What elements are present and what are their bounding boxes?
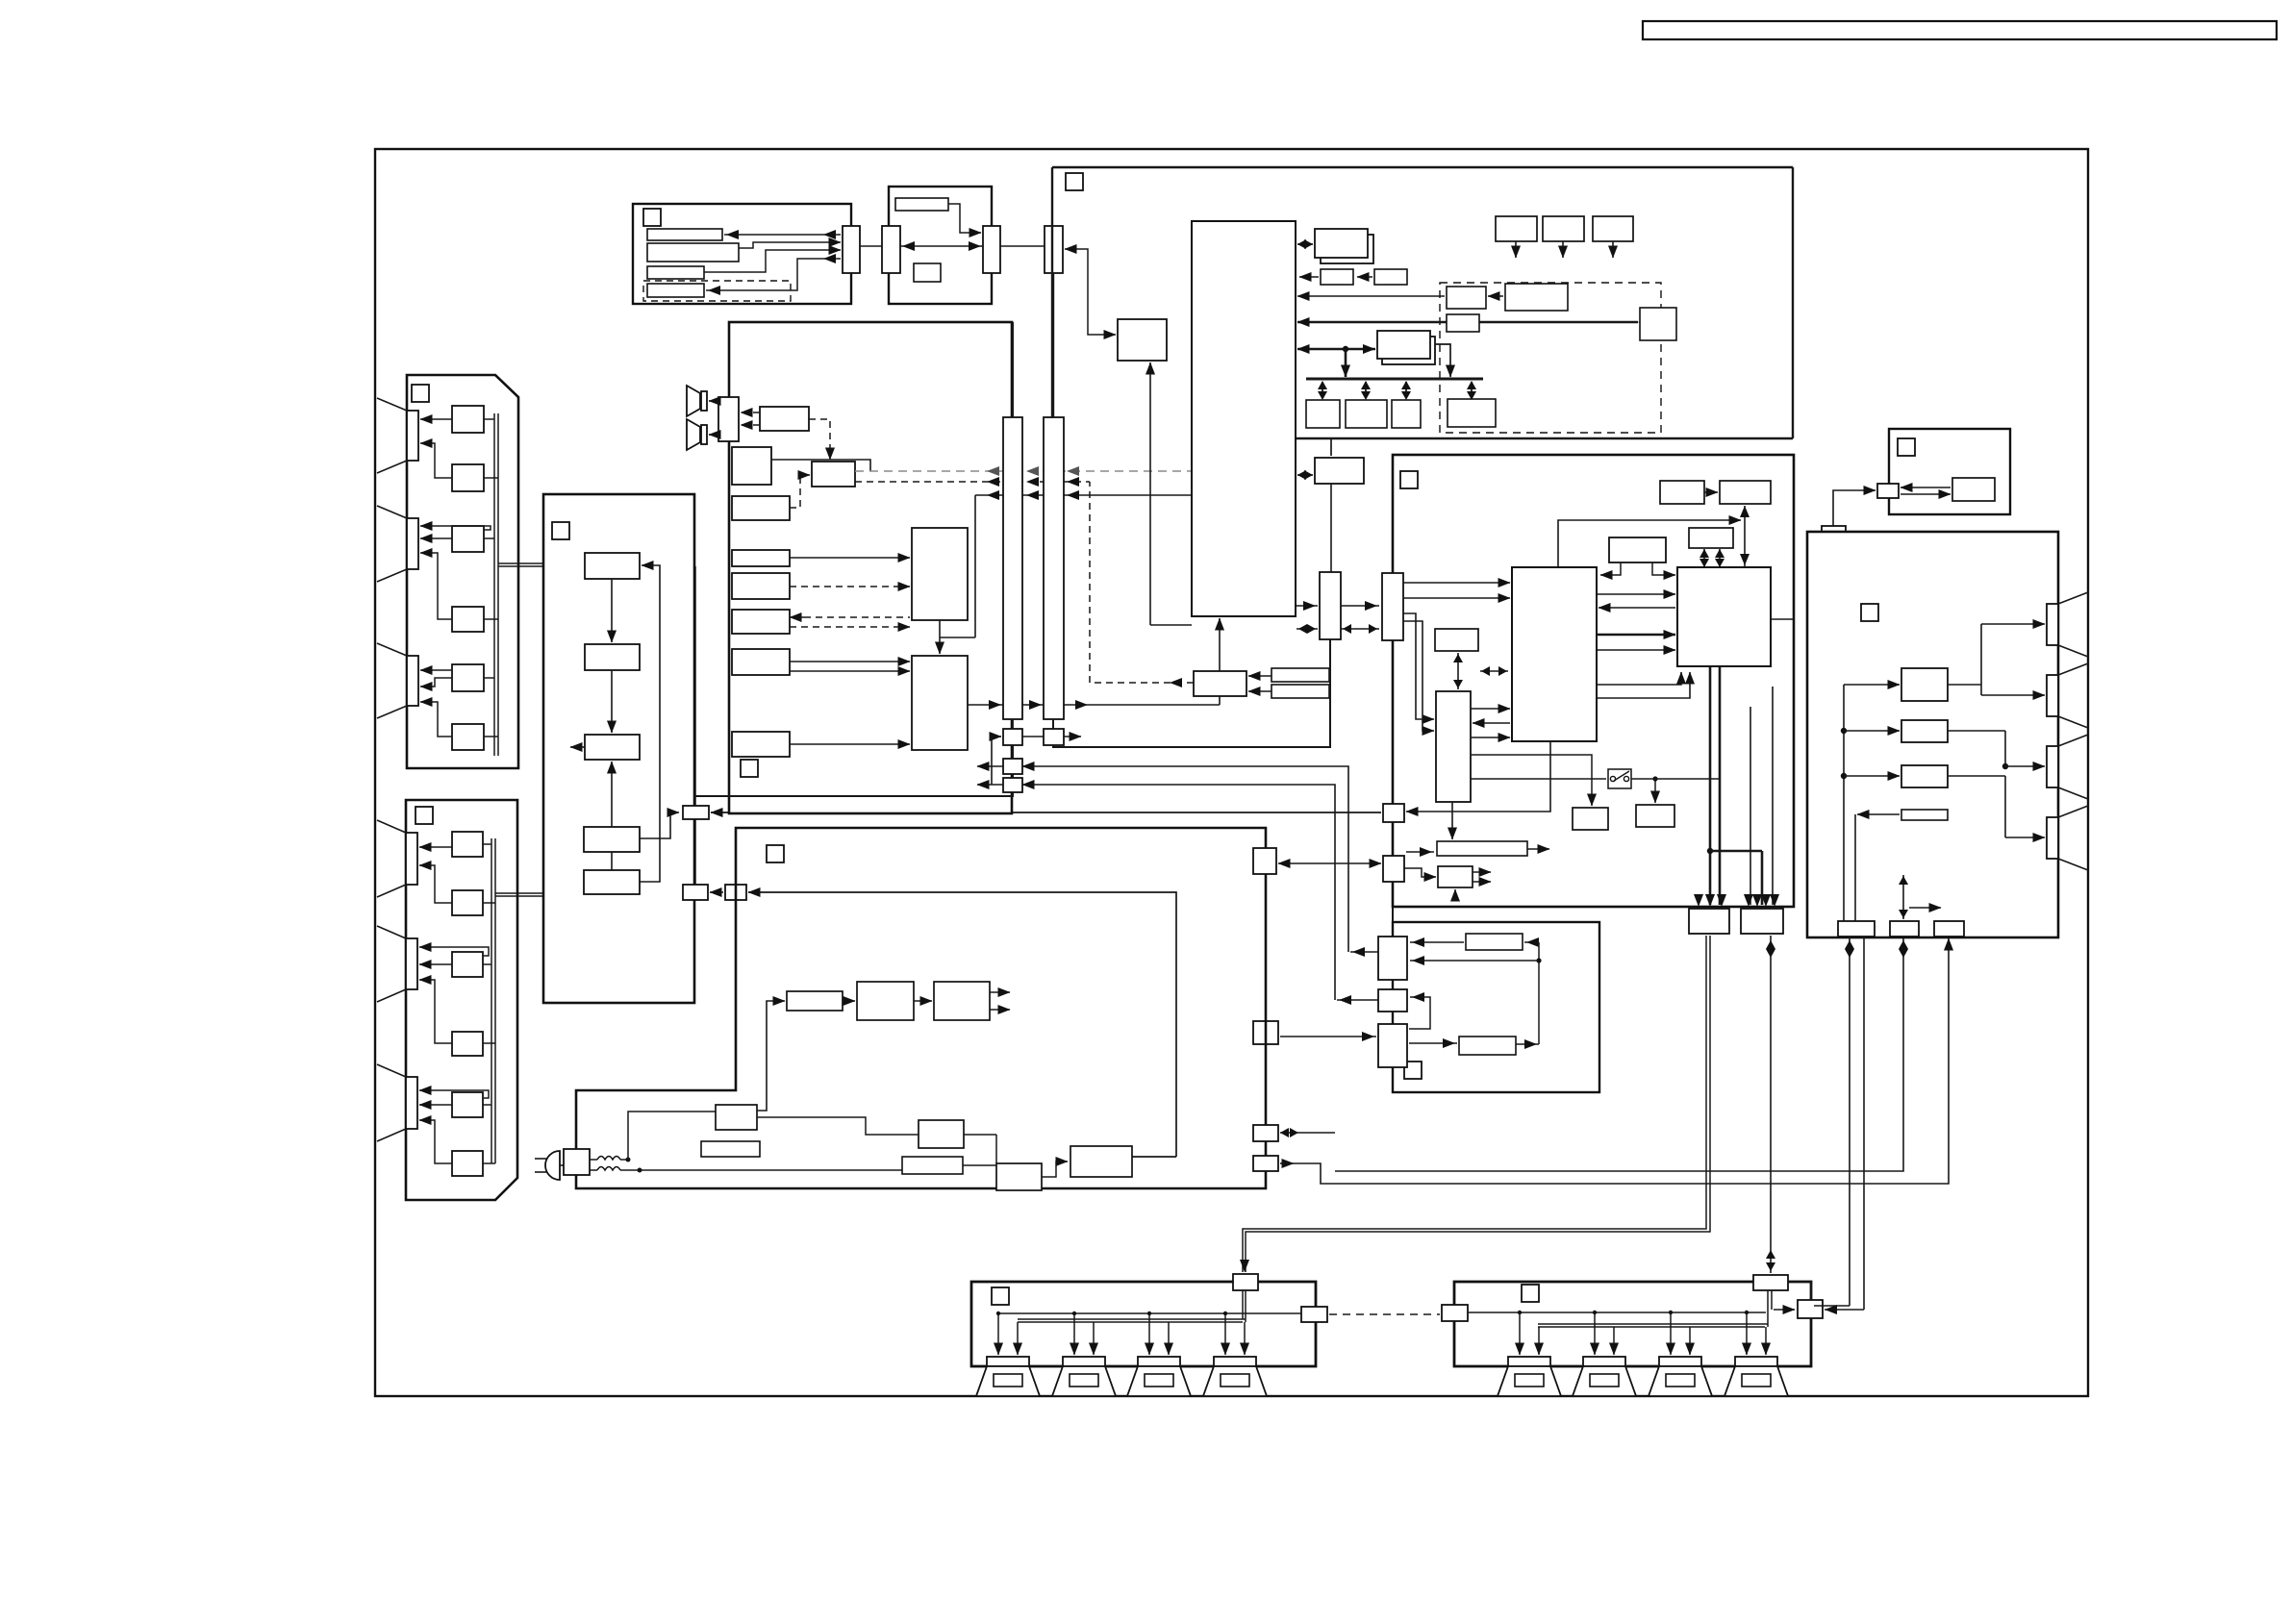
edid B — [1720, 481, 1771, 504]
audio DSP A1 — [912, 528, 968, 620]
connector F0 — [1689, 909, 1729, 934]
speaker icon SP1 — [687, 386, 707, 416]
speaker driver BL-2 — [1052, 1357, 1116, 1396]
connector CB — [1253, 1156, 1278, 1171]
tcon RI — [1677, 567, 1771, 666]
speaker panel P1 outline — [407, 375, 518, 768]
wire W1-V3 — [1278, 862, 1381, 864]
subout container box — [1393, 922, 1599, 1092]
speaker panel P2 outline — [406, 800, 517, 1200]
tv out1 — [1496, 216, 1537, 241]
wire ctrl solid — [975, 490, 1191, 500]
wire audio box top right riser — [1012, 322, 1014, 417]
connector K3 — [725, 885, 746, 900]
wire T4 to W2 — [1065, 249, 1116, 335]
wire RT-sensor — [1901, 487, 1951, 494]
wire IC thick y363 — [1297, 346, 1375, 377]
terminal tab P1-T2 — [377, 506, 418, 582]
PS strip B2 — [701, 1141, 760, 1157]
main board box outline — [576, 828, 1266, 1188]
connector SC speakers — [718, 397, 739, 441]
wire T3-T4 — [1000, 245, 1045, 247]
wire P1 tab feeds — [420, 419, 491, 737]
main IC (tall) — [1192, 221, 1296, 616]
wire L2 to SB dashed — [790, 475, 810, 508]
key R2 strip — [1271, 685, 1329, 698]
wire video left edge extension — [1392, 907, 1394, 922]
wire right inputs — [1841, 685, 1900, 921]
wire PS links — [757, 1117, 1068, 1177]
wire S1 feed — [992, 737, 1001, 785]
jack block L6 — [732, 649, 790, 675]
wire CI-RI lines — [1597, 594, 1690, 698]
coupler E3 — [1378, 1024, 1407, 1067]
amp A — [1901, 668, 1948, 701]
terminal tab P1-T1 — [377, 398, 418, 473]
wire IC to Q to V1 — [1297, 601, 1379, 634]
wire bb2-bb1-IC — [1299, 276, 1372, 278]
wire L2b — [1404, 847, 1491, 901]
format conv tallT — [1436, 691, 1471, 802]
video board box — [1393, 455, 1794, 907]
connector c2 — [1890, 921, 1919, 937]
eeprom smallL — [1435, 629, 1478, 651]
strip D — [1901, 810, 1948, 820]
wire P1 inner trunk — [484, 413, 498, 756]
wire RT feed — [1833, 490, 1876, 526]
connector Tb — [1798, 1300, 1823, 1318]
bus mem B4 — [1448, 399, 1496, 427]
connector BR-left — [1442, 1305, 1468, 1321]
ddr top — [1609, 537, 1666, 562]
audio amp A2 — [912, 656, 968, 750]
stacked memory SR1 — [1315, 229, 1373, 263]
tv out3 — [1593, 216, 1633, 241]
mute block AB — [760, 407, 809, 431]
connector T1 — [843, 226, 860, 273]
wire AB to SC dashed — [741, 412, 760, 425]
strip ST2 — [1459, 1037, 1516, 1055]
wire ddr to CI and RI — [1600, 562, 1675, 575]
dashed remote group — [1440, 283, 1661, 433]
ir sensor — [1952, 478, 1995, 501]
wire P2 inner trunk — [483, 838, 495, 1163]
right drive box — [1807, 532, 2058, 937]
speaker icon SP2 — [687, 419, 707, 450]
IF demod W2 — [1118, 319, 1167, 361]
jack block L1 — [732, 447, 771, 485]
IF block R5 — [895, 198, 948, 211]
connector W1 — [1253, 848, 1276, 874]
wire A-B — [1704, 491, 1718, 493]
speaker unit box P1-2 — [452, 464, 484, 491]
block M5 — [584, 870, 640, 894]
tv out2 — [1543, 216, 1584, 241]
wire A1 to A2 — [940, 495, 975, 654]
wire E-chain spine — [1392, 976, 1394, 993]
wire Ta to Tb — [1768, 1282, 1811, 1327]
wire c1 drops to Tb — [1814, 937, 1864, 1314]
wire d2-d1 — [1488, 295, 1503, 297]
wire R2-T1 — [704, 242, 841, 272]
wire AB to SB dashed — [809, 419, 830, 460]
connector Ta — [1753, 1275, 1788, 1290]
wire IR to IC — [1219, 618, 1221, 671]
scaler IC CI — [1512, 567, 1597, 741]
block M1 — [585, 553, 640, 579]
block L2b — [1438, 866, 1473, 887]
strip L1b — [1437, 841, 1527, 856]
connector T4 — [1045, 226, 1063, 273]
wire IC to W-mid — [1297, 474, 1313, 476]
speaker unit box P1-1 — [452, 406, 484, 433]
wire c2 stub — [1899, 875, 1941, 919]
connector Q — [1320, 572, 1341, 639]
remote rx box — [1889, 429, 2010, 514]
sub board box — [543, 494, 694, 1003]
terminal tab P2-T1 — [377, 820, 417, 897]
jack block L3 — [732, 550, 790, 566]
label main digital — [1066, 173, 1083, 190]
speaker unit box P2-3 — [452, 952, 483, 977]
speaker unit box P1-3 — [452, 526, 484, 552]
wire L1b out — [1527, 848, 1549, 850]
connector T2 — [882, 226, 900, 273]
wire PS chain — [535, 1112, 902, 1180]
wire V1 to CI — [1403, 583, 1510, 731]
jack block L2 — [732, 496, 790, 520]
wire CA to c2 — [1280, 938, 1908, 1171]
jack block L7 — [732, 732, 790, 757]
connector C0 — [1253, 1021, 1278, 1044]
wire s2 to Q video path — [1053, 639, 1330, 747]
wire C-RI double — [1699, 549, 1725, 567]
audio board box — [729, 322, 1012, 813]
antenna jack R3 — [647, 266, 704, 279]
hdmi W-mid — [1315, 458, 1364, 484]
label tuner — [643, 209, 661, 226]
connector T3 — [983, 226, 1000, 273]
jack block L4 — [732, 573, 790, 599]
terminal tab R-T4 — [2047, 806, 2088, 870]
IF block R6 — [914, 263, 941, 282]
wire B1 riser to TB chain — [757, 1001, 785, 1111]
wire M5 riser to M1 — [640, 565, 660, 882]
label right drive — [1861, 604, 1878, 621]
amp C — [1901, 765, 1948, 787]
bottom left speaker box — [971, 1282, 1316, 1366]
wire IC line y308 — [1297, 295, 1445, 297]
wire speaker bus P1-to-amp — [495, 563, 695, 896]
wire Wmid to Q — [1330, 484, 1332, 572]
wire W2 to IC — [1150, 362, 1192, 625]
label bl speakers — [992, 1287, 1009, 1305]
label audio board — [741, 760, 758, 777]
wire BR distribution — [1468, 1311, 1768, 1355]
chain TB — [787, 991, 843, 1011]
wire standby line K1 to video V2 — [711, 812, 1381, 813]
flash C — [1689, 528, 1733, 548]
label P2 — [415, 807, 433, 824]
wire CB to c3 — [1280, 938, 1949, 1184]
label P1 — [412, 385, 429, 402]
wire IR dashed to ctrl — [1090, 482, 1194, 687]
wire RI right stub — [1771, 618, 1793, 620]
clock bb1 — [1321, 269, 1353, 285]
connector F1 — [1741, 909, 1783, 934]
key R1 strip — [1271, 668, 1329, 682]
speaker unit box P1-6 — [452, 724, 484, 750]
wire T1-T2 — [860, 245, 882, 247]
main digital box outline — [1052, 167, 1793, 438]
wire Ta risers — [1766, 936, 1775, 1273]
speaker unit box P1-5 — [452, 664, 484, 691]
wire ctrl dashed black — [855, 477, 1090, 487]
bus mem B1 — [1306, 400, 1340, 428]
wire KV stub — [1832, 543, 1834, 575]
label main board — [767, 845, 784, 862]
label sub board — [552, 522, 569, 539]
connector CN-B (tall) — [1044, 417, 1064, 719]
antenna jack R2 — [647, 243, 739, 262]
wire LB dashed link — [1329, 1313, 1440, 1315]
wire R1-T1 — [724, 230, 841, 239]
terminal tab P2-T2 — [377, 926, 417, 1002]
tuner box — [633, 204, 851, 304]
volume block SB — [812, 462, 855, 487]
connector K2 — [683, 885, 708, 900]
wire S3 lines — [977, 766, 1348, 952]
wire CI down to V2 — [1406, 741, 1550, 812]
terminal tab P1-T3 — [377, 643, 418, 718]
speaker driver BR-2 — [1573, 1357, 1636, 1396]
wire M-chain — [611, 579, 613, 870]
PS block B5 — [996, 1163, 1042, 1190]
wire IC thick y335 — [1297, 317, 1650, 327]
terminal tab R-T1 — [2047, 592, 2088, 657]
connector CN-A (tall) — [1003, 417, 1022, 719]
reg D1 — [1573, 808, 1608, 830]
wire T2-T3 — [900, 241, 983, 251]
wire SW branches — [1471, 755, 1720, 806]
memory bus line — [1306, 378, 1483, 381]
wire CI top loop to B — [1558, 506, 1750, 567]
PS block B6 — [1070, 1146, 1132, 1177]
connector c3 — [1934, 921, 1964, 937]
title bar — [1643, 21, 2277, 39]
wire smallL links — [1453, 653, 1508, 689]
PS strip B4 — [902, 1157, 963, 1174]
PS block B1 — [716, 1105, 757, 1130]
speaker driver BL-1 — [976, 1357, 1040, 1396]
wire P2 tab feeds — [419, 847, 489, 1163]
wire tv out arrows — [1516, 241, 1613, 258]
connector S4 — [1003, 778, 1022, 792]
connector LB-right — [1301, 1307, 1327, 1322]
connector CA — [1253, 1125, 1278, 1141]
coupler E1 — [1378, 937, 1407, 980]
connector V2 — [1383, 804, 1404, 822]
wire right outputs — [1948, 624, 2045, 837]
speaker driver BL-4 — [1203, 1357, 1267, 1396]
switch SW — [1471, 769, 1631, 788]
wire T1-R4 — [706, 254, 841, 295]
wire E1 E2 left outputs — [1337, 947, 1378, 1005]
speaker unit box P2-5 — [452, 1092, 483, 1117]
bus mem B2 — [1346, 400, 1387, 428]
wire L column to A1/A2 — [771, 460, 910, 744]
connector c1 — [1838, 921, 1875, 937]
wire chain links — [843, 992, 1010, 1010]
wire R5 to T3 — [948, 204, 981, 233]
connector S2 — [1044, 729, 1064, 745]
buffer d3 — [1447, 314, 1479, 332]
speaker unit box P1-4 — [452, 607, 484, 632]
chain RB — [934, 982, 990, 1020]
connector LB-top — [1233, 1274, 1258, 1290]
stacked memory SR2 — [1363, 331, 1435, 364]
speaker driver BR-3 — [1649, 1357, 1712, 1396]
wire tallT down to L1b — [1451, 802, 1453, 839]
speaker unit box P2-1 — [452, 832, 483, 857]
wire SR2 drop to bus — [1435, 344, 1450, 377]
antenna jack R4 — [647, 284, 704, 297]
wire bus double arrows — [1318, 381, 1476, 400]
wire keys to IR — [1248, 676, 1271, 691]
wire S1-S2 — [1022, 736, 1081, 737]
wire F0 to LB connector (double) — [1240, 936, 1710, 1272]
speaker driver BR-1 — [1498, 1357, 1561, 1396]
wire S1 bottom to K2 row — [694, 745, 1013, 796]
block M2 — [585, 644, 640, 670]
connector S3 — [1003, 759, 1022, 774]
connector S1 — [1003, 729, 1022, 745]
dram d1 — [1447, 287, 1486, 309]
edid A — [1660, 481, 1704, 504]
label remote rx — [1898, 438, 1915, 456]
speaker driver BR-4 — [1725, 1357, 1788, 1396]
chain MB — [857, 982, 914, 1020]
wire subout loop — [1409, 937, 1542, 1049]
wire M3 stub left — [570, 746, 585, 748]
label subout — [1404, 1062, 1422, 1079]
terminal tab R-T3 — [2047, 735, 2088, 799]
wire C0 to E3 — [1280, 1036, 1376, 1037]
coupler E2 — [1378, 989, 1407, 1012]
wire drop to W-mid — [1330, 438, 1332, 456]
dram d2 — [1505, 284, 1568, 311]
wire tallT-CI — [1471, 709, 1510, 737]
speaker unit box P2-6 — [452, 1151, 483, 1176]
strip ST1 — [1466, 934, 1523, 950]
wire power line to K3 from PS — [748, 892, 1176, 1157]
connector V3 — [1383, 856, 1404, 882]
speaker unit box P2-2 — [452, 890, 483, 915]
connector KV — [1822, 526, 1846, 540]
wire main vertical x=1095 — [1052, 273, 1054, 729]
jack d4 — [1640, 308, 1676, 340]
wire stub CN-A to S1 — [1012, 719, 1014, 729]
reg D2 — [1636, 805, 1674, 827]
block M4 — [584, 827, 640, 852]
bus mem B3 — [1392, 400, 1421, 428]
terminal tab R-T2 — [2047, 663, 2088, 728]
wire ctrl dashed gray — [855, 466, 1191, 476]
wire LB distribution — [996, 1290, 1301, 1355]
wire A2 out to connectors — [968, 696, 1220, 710]
wire K3-K2 — [710, 891, 723, 893]
dashed option group — [643, 281, 791, 301]
IR receiver — [1194, 671, 1246, 696]
terminal tab P2-T3 — [377, 1064, 417, 1141]
PS block B3 — [919, 1120, 964, 1148]
amp B — [1901, 720, 1948, 742]
wire SC to speakers — [709, 401, 718, 435]
label br speakers — [1522, 1285, 1539, 1302]
connector K1 — [683, 806, 709, 819]
clock bb2 — [1374, 269, 1407, 285]
wire M4 riser to K1 — [640, 812, 679, 838]
bottom right speaker box — [1454, 1282, 1811, 1366]
wire S4 lines — [977, 785, 1335, 1000]
speaker unit box P2-4 — [452, 1032, 483, 1056]
speaker driver BL-3 — [1127, 1357, 1191, 1396]
antenna jack R1 — [647, 229, 722, 240]
label video board — [1400, 471, 1418, 488]
block M3 — [585, 735, 640, 760]
wire IC-SR1 — [1297, 243, 1313, 245]
outer frame — [375, 149, 2088, 1396]
connector V1 — [1382, 573, 1403, 640]
IF box — [889, 187, 992, 304]
jack block L5 — [732, 610, 790, 634]
connector RT — [1877, 484, 1899, 498]
wire LVDS down — [1694, 666, 1779, 907]
